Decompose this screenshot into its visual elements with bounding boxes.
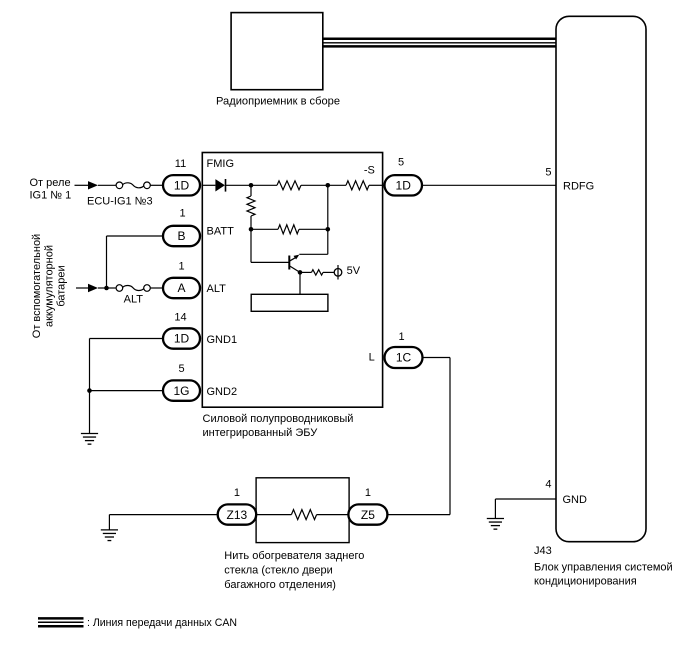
svg-text:ECU-IG1 №3: ECU-IG1 №3 (87, 196, 153, 208)
svg-text:ALT: ALT (207, 283, 227, 295)
svg-text:1: 1 (178, 261, 184, 273)
svg-text:Z13: Z13 (227, 508, 248, 522)
svg-text:кондиционирования: кондиционирования (534, 576, 637, 588)
svg-text:Z5: Z5 (361, 508, 375, 522)
svg-text:BATT: BATT (207, 226, 235, 238)
svg-text:GND: GND (563, 494, 588, 506)
svg-text:багажного отделения): багажного отделения) (224, 579, 336, 591)
svg-text:RDFG: RDFG (563, 181, 594, 193)
svg-text:стекла (стекло двери: стекла (стекло двери (224, 565, 332, 577)
svg-text:-S: -S (364, 165, 375, 177)
svg-text:1: 1 (234, 487, 240, 499)
svg-text:1: 1 (179, 208, 185, 220)
svg-text:GND1: GND1 (207, 334, 238, 346)
svg-text:Нить обогревателя заднего: Нить обогревателя заднего (224, 550, 364, 562)
svg-text:ALT: ALT (124, 293, 144, 305)
svg-text:14: 14 (174, 312, 186, 324)
svg-text:5V: 5V (347, 265, 361, 277)
svg-text:1: 1 (398, 331, 404, 343)
svg-text:5: 5 (178, 363, 184, 375)
svg-text:1: 1 (365, 487, 371, 499)
svg-text:5: 5 (545, 167, 551, 179)
svg-text:5: 5 (398, 157, 404, 169)
svg-text:: Линия передачи данных CAN: : Линия передачи данных CAN (87, 617, 237, 629)
svg-text:B: B (177, 229, 185, 243)
svg-text:L: L (369, 351, 375, 363)
svg-text:Силовой полупроводниковый: Силовой полупроводниковый (203, 413, 354, 425)
svg-text:FMIG: FMIG (207, 158, 235, 170)
svg-text:аккумуляторной: аккумуляторной (43, 245, 55, 327)
svg-text:1D: 1D (174, 332, 190, 346)
svg-text:A: A (177, 281, 185, 295)
svg-text:От вспомогательной: От вспомогательной (31, 234, 43, 338)
svg-text:Радиоприемник в сборе: Радиоприемник в сборе (216, 96, 340, 108)
svg-text:1C: 1C (396, 351, 412, 365)
svg-text:1D: 1D (396, 179, 412, 193)
svg-text:От реле: От реле (30, 177, 71, 189)
svg-text:IG1 № 1: IG1 № 1 (30, 189, 72, 201)
svg-text:1G: 1G (173, 384, 189, 398)
svg-text:1D: 1D (174, 179, 190, 193)
svg-text:GND2: GND2 (207, 386, 238, 398)
svg-text:Блок управления системой: Блок управления системой (534, 562, 673, 574)
svg-text:интегрированный ЭБУ: интегрированный ЭБУ (203, 427, 319, 439)
svg-text:J43: J43 (534, 545, 552, 557)
svg-text:батареи: батареи (56, 265, 68, 306)
svg-text:11: 11 (175, 158, 186, 170)
svg-text:4: 4 (545, 479, 551, 491)
